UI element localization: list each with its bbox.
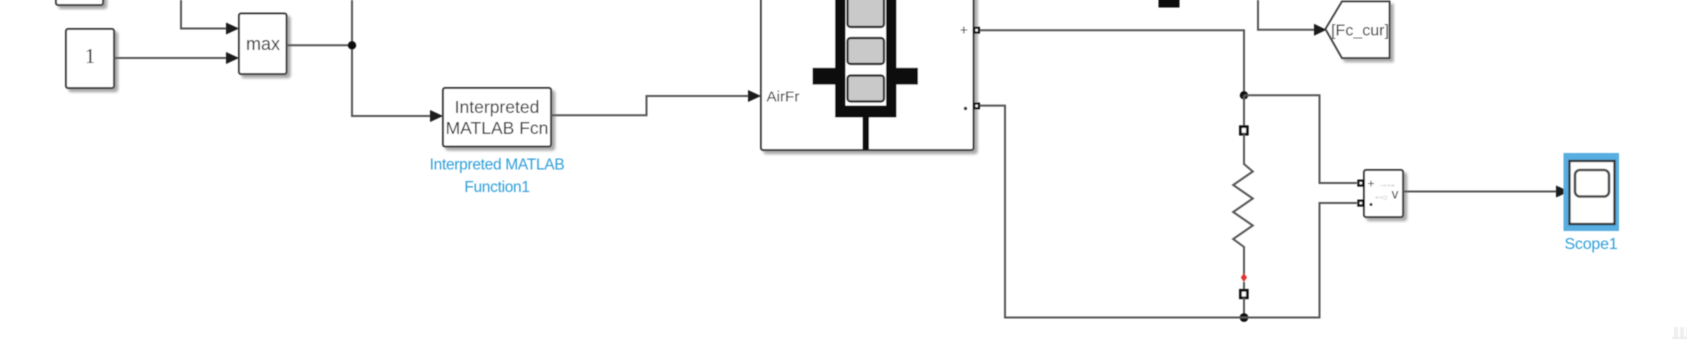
wire max output to junction [287,44,353,46]
plus port label [960,22,968,38]
Scope1 selection highlight [1564,153,1620,231]
svg-text:v: v [1392,187,1399,202]
svg-text:⊷o: ⊷o [1375,193,1388,202]
svg-text:Interpreted MATLAB: Interpreted MATLAB [430,157,565,174]
wire constant 1 to max in2 [114,52,239,64]
constant block "1" [66,29,114,88]
resistor top connection square [1240,127,1247,135]
wire sensor output to scope [1403,186,1570,198]
wire plus rail [980,30,1244,95]
svg-text:AirFr: AirFr [767,89,800,106]
MinMax block max [239,14,287,75]
label Interpreted MATLAB Function1 [430,157,565,197]
stack icon crossbar arms [813,68,919,85]
wire junction to voltage sensor plus [1244,95,1357,183]
fuel cell subsystem block [761,0,974,150]
svg-text:[Fc_cur]: [Fc_cur] [1331,23,1389,40]
wire from top through junction down to fcn input [352,0,443,122]
wire fcn output to AirFr input [551,90,761,115]
wire from top into max in1 [181,0,239,35]
partial block top-left [56,0,103,5]
Interpreted MATLAB Fcn block [443,88,551,147]
stack cell 3 [848,76,885,102]
stack stem to block bottom [863,117,870,150]
svg-text:MATLAB Fcn: MATLAB Fcn [446,118,549,138]
voltage sensor block v [1364,170,1403,217]
svg-text:max: max [246,34,280,54]
stack cell 1 [848,0,885,27]
wire bottom port to bottom rail [1243,298,1245,318]
Goto tag Fc_cur [1326,2,1390,59]
black bar cut at top [1159,0,1180,8]
stack icon frame [835,0,897,118]
stack cell 2 [848,38,885,64]
svg-text:Interpreted: Interpreted [455,97,540,117]
wire red marker to bottom port [1243,282,1245,290]
svg-text:1: 1 [85,44,96,68]
svg-text:Scope1: Scope1 [1564,236,1617,253]
wire minus rail [980,106,1357,318]
svg-text:+: + [960,22,968,38]
minus port label [964,107,967,110]
junction dot plus rail [1240,91,1248,99]
resistor R zigzag [1233,134,1253,274]
junction dot [348,41,356,49]
wire junction to resistor top port [1243,95,1245,126]
watermark bottom right [1672,327,1687,339]
svg-text:+: + [1367,177,1374,191]
wire from top to Fc_cur tag [1258,0,1327,36]
red variant marker [1241,273,1247,282]
minus port square [973,103,980,110]
Scope1 block [1570,161,1615,224]
Scope1 label [1564,236,1617,253]
junction dot bottom rail [1240,313,1249,322]
svg-text:Function1: Function1 [464,179,529,196]
voltage sensor port squares [1357,180,1364,207]
resistor bottom connection square [1240,290,1247,298]
plus port square [973,27,980,34]
